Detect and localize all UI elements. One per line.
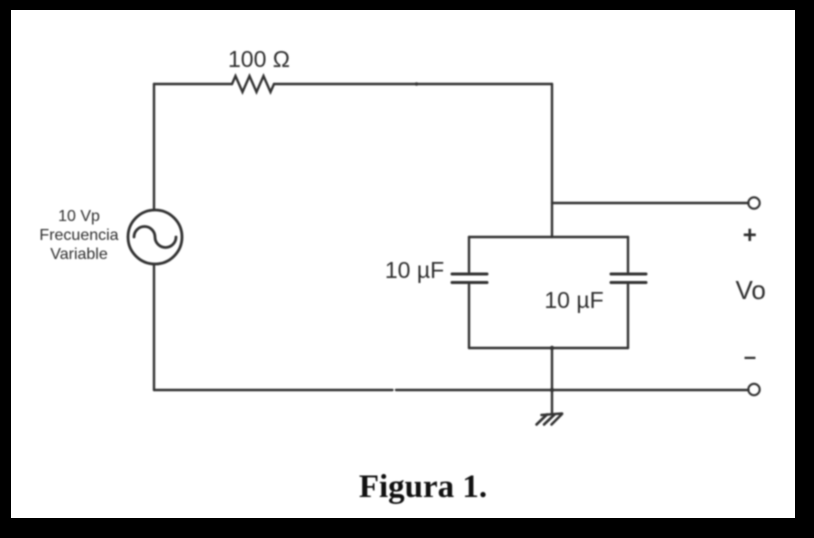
wire to plus terminal <box>552 202 749 204</box>
source V1 circle <box>128 210 182 264</box>
svg-text:10 µF: 10 µF <box>544 287 603 313</box>
svg-text:–: – <box>744 344 756 369</box>
svg-text:10 µF: 10 µF <box>385 257 444 283</box>
svg-text:Frecuencia: Frecuencia <box>39 227 118 244</box>
junction node bottom rail <box>550 388 554 392</box>
resistor R1 100 Ohm <box>232 76 274 92</box>
source V1 sine wave <box>134 227 176 248</box>
caption Figura 1. <box>359 469 487 505</box>
wire ground stem <box>551 348 553 413</box>
wire top rail right segment <box>274 83 552 85</box>
capacitor C1 plates <box>452 274 487 283</box>
junction node top rail <box>415 82 418 85</box>
svg-text:100 Ω: 100 Ω <box>228 46 290 72</box>
plus sign label <box>743 222 757 249</box>
wire box left edge lower <box>468 285 470 349</box>
wire right vertical from top rail to box <box>551 84 553 237</box>
source label 10 Vp Frecuencia Variable <box>39 208 118 263</box>
capacitor C1 value label 10 uF <box>385 257 444 283</box>
terminal plus circle <box>748 197 759 208</box>
resistor value label 100 Ohm <box>228 46 290 72</box>
capacitor C2 plates <box>611 274 646 283</box>
capacitor C2 value label 10 uF <box>544 287 603 313</box>
svg-text:+: + <box>743 222 757 249</box>
wire box top edge <box>469 236 628 238</box>
wire left vertical lower <box>153 264 155 390</box>
wire left vertical upper <box>153 84 155 210</box>
junction node box bottom <box>550 346 554 350</box>
wire box right edge upper <box>627 237 629 272</box>
terminal minus circle <box>748 384 759 395</box>
ground symbol <box>537 414 563 425</box>
output label Vo <box>736 275 766 305</box>
minus sign label <box>744 344 756 369</box>
svg-text:Figura 1.: Figura 1. <box>359 469 487 505</box>
wire box right edge lower <box>627 285 629 349</box>
wire box bottom edge <box>469 347 628 349</box>
svg-text:Vo: Vo <box>736 275 766 305</box>
svg-text:Variable: Variable <box>50 246 108 263</box>
wire box left edge upper <box>468 237 470 272</box>
wire bottom rail <box>154 389 749 391</box>
wire top rail left segment <box>154 83 232 85</box>
svg-text:10 Vp: 10 Vp <box>58 208 100 225</box>
